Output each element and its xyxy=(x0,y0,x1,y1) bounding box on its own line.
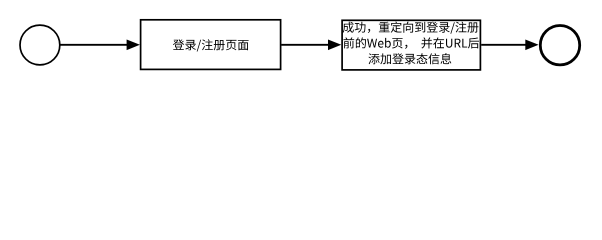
label box2 line3: 添加登录态信息 xyxy=(369,53,452,64)
process box1 xyxy=(141,20,281,70)
label box2 line2: 前的Web页， 并在URL后 xyxy=(344,37,480,48)
arrowhead into box2 xyxy=(328,40,341,51)
wire: box2 to end xyxy=(481,44,526,46)
end event circle xyxy=(540,26,579,65)
wire: box1 to box2 xyxy=(281,44,329,46)
label box1: 登录/注册页面 xyxy=(173,39,249,51)
process box2 xyxy=(342,20,480,70)
start event circle xyxy=(20,25,60,65)
label box2 line1: 成功，重定向到登录/注册 xyxy=(343,22,479,34)
arrowhead into box1 xyxy=(127,40,140,51)
flowchart: login/register redirect flow xyxy=(0,0,602,91)
wire: start to box1 xyxy=(60,44,128,46)
arrowhead into end circle xyxy=(525,40,538,51)
